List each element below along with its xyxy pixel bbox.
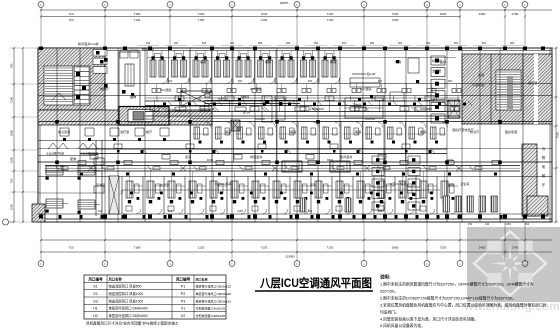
svg-text:D820x200: D820x200	[200, 107, 214, 111]
svg-text:治疗室: 治疗室	[120, 129, 129, 134]
svg-text:方形散流器 D160x125: 方形散流器 D160x125	[196, 306, 226, 311]
svg-text:配餐: 配餐	[70, 156, 76, 161]
svg-text:7180: 7180	[134, 246, 141, 250]
svg-text:7230: 7230	[440, 246, 447, 250]
svg-text:S2: S2	[93, 292, 97, 296]
svg-text:930: 930	[174, 41, 179, 45]
svg-text:930: 930	[286, 41, 291, 45]
svg-text:119000: 119000	[285, 255, 295, 259]
svg-text:方形散流器 D180x180: 方形散流器 D180x180	[196, 313, 226, 318]
svg-text:300: 300	[448, 79, 453, 83]
svg-text:卫: 卫	[120, 190, 123, 194]
svg-text:510: 510	[342, 41, 347, 45]
svg-text:320x150: 320x150	[365, 117, 376, 121]
svg-text:均设阀门。: 均设阀门。	[380, 310, 399, 315]
svg-text:4.风管安装标高以梁下皮为准，风口尺寸详见综合吊顶图。: 4.风管安装标高以梁下皮为准，风口尺寸详见综合吊顶图。	[380, 317, 478, 322]
svg-text:八层ICU空调通风平面图: 八层ICU空调通风平面图	[259, 276, 372, 290]
svg-text:X2: X2	[181, 314, 185, 318]
svg-text:300: 300	[168, 79, 173, 83]
svg-text:病房: 病房	[420, 129, 426, 134]
svg-text:510: 510	[482, 41, 487, 45]
svg-text:140: 140	[378, 209, 383, 213]
svg-text:1.图中未标注的新风管道风管尺寸为320*250，GFR/X: 1.图中未标注的新风管道风管尺寸为320*250，GFR/X横管尺寸为320*2…	[380, 282, 534, 287]
svg-text:走道: 走道	[185, 154, 191, 159]
svg-text:2450: 2450	[479, 246, 486, 250]
svg-text:电梯厅: 电梯厅	[100, 86, 109, 91]
svg-text:新风竖井(x4)井: 新风竖井(x4)井	[78, 41, 99, 46]
svg-text:7140: 7140	[134, 18, 141, 22]
svg-text:7130: 7130	[327, 12, 334, 16]
svg-text:值班: 值班	[448, 182, 454, 187]
svg-text:2.图中未标注的D/O820*150接管尺寸为320*250: 2.图中未标注的D/O820*150接管尺寸为320*250,D/440*160…	[380, 296, 516, 301]
svg-text:320: 320	[230, 41, 235, 45]
svg-text:病房: 病房	[355, 129, 361, 134]
svg-text:1200: 1200	[261, 18, 268, 22]
svg-text:200: 200	[510, 41, 515, 45]
svg-text:7140: 7140	[10, 96, 14, 103]
svg-text:医护走廊: 医护走廊	[505, 129, 517, 134]
svg-text:150: 150	[308, 209, 313, 213]
svg-text:病房: 病房	[330, 59, 336, 64]
svg-text:说明:: 说明:	[380, 274, 391, 281]
svg-text:360: 360	[454, 41, 459, 45]
svg-text:P1: P1	[181, 285, 185, 289]
svg-text:S3: S3	[93, 299, 97, 303]
svg-text:7180: 7180	[198, 18, 205, 22]
svg-text:7230: 7230	[392, 12, 399, 16]
svg-text:X1: X1	[181, 307, 185, 311]
svg-text:污洗间: 污洗间	[96, 182, 105, 187]
svg-text:2790: 2790	[512, 12, 519, 16]
svg-text:360: 360	[314, 41, 319, 45]
svg-text:140: 140	[168, 209, 173, 213]
svg-text:3580: 3580	[10, 129, 14, 136]
svg-text:800X320: 800X320	[218, 97, 229, 101]
svg-text:A区ICU病房: A区ICU病房	[215, 181, 232, 186]
svg-text:284: 284	[258, 41, 263, 45]
svg-text:走廊: 走廊	[478, 72, 484, 77]
svg-text:侧送双层风口 风量1000: 侧送双层风口 风量1000	[109, 291, 144, 296]
svg-text:医梯: 医梯	[130, 94, 136, 99]
svg-text:单层百叶排风口 D825x125: 单层百叶排风口 D825x125	[196, 284, 232, 289]
svg-text:H1: H1	[93, 307, 98, 311]
svg-text:单层百叶排风口 D820x125: 单层百叶排风口 D820x125	[196, 298, 232, 303]
svg-text:D640: D640	[207, 158, 214, 162]
svg-text:1220: 1220	[198, 246, 205, 250]
svg-text:风口名称: 风口名称	[196, 276, 208, 281]
svg-text:呼吸机: 呼吸机	[432, 58, 442, 63]
svg-text:150: 150	[525, 222, 530, 226]
svg-text:病房: 病房	[290, 129, 296, 134]
svg-text:3.安装位置风机盘管处风机盘管应与中心置，风口位置以综合吊顶: 3.安装位置风机盘管处风机盘管应与中心置，风口位置以综合吊顶图为准。接风机盘管外…	[380, 303, 547, 308]
svg-text:2800: 2800	[392, 246, 399, 250]
svg-text:344: 344	[146, 41, 151, 45]
svg-text:库房: 库房	[310, 182, 316, 187]
svg-text:5100: 5100	[10, 156, 14, 163]
svg-text:办公走廊: 办公走廊	[58, 129, 70, 134]
svg-text:820x500: 820x500	[420, 107, 432, 111]
svg-text:7180: 7180	[134, 12, 141, 16]
svg-text:284: 284	[370, 41, 375, 45]
svg-text:单层百叶回风口 D640x400: 单层百叶回风口 D640x400	[109, 306, 148, 311]
svg-text:风机盘管风口尺寸详见"综合吊顶图"并与装修工程配合施工: 风机盘管风口尺寸详见"综合吊顶图"并与装修工程配合施工	[86, 321, 179, 326]
svg-text:7130: 7130	[261, 246, 268, 250]
svg-text:D640: D640	[447, 158, 454, 162]
svg-text:790: 790	[10, 63, 14, 68]
svg-text:320x200: 320x200	[255, 117, 266, 121]
svg-text:930: 930	[426, 41, 431, 45]
svg-text:风口编号: 风口编号	[88, 276, 103, 281]
svg-text:320x250: 320x250	[145, 117, 156, 121]
svg-text:7130: 7130	[327, 246, 334, 250]
svg-text:ICU通道: ICU通道	[250, 86, 262, 91]
svg-text:观片室: 观片室	[528, 80, 537, 85]
svg-text:900: 900	[238, 79, 243, 83]
svg-text:320*150。: 320*150。	[380, 290, 398, 294]
svg-text:S1: S1	[93, 285, 97, 289]
svg-text:140: 140	[485, 222, 490, 226]
svg-text:1150: 1150	[237, 209, 243, 213]
svg-text:7230: 7230	[392, 18, 399, 22]
svg-text:前厅: 前厅	[146, 129, 152, 134]
svg-text:1550X600 加L3M: 1550X600 加L3M	[352, 71, 376, 76]
svg-text:病房: 病房	[395, 59, 401, 64]
svg-text:510: 510	[202, 41, 207, 45]
svg-text:全自动循环泵组: 全自动循环泵组	[46, 152, 65, 156]
svg-text:排风竖井: 排风竖井	[250, 154, 262, 159]
svg-text:7130: 7130	[327, 18, 334, 22]
svg-text:150: 150	[98, 209, 103, 213]
svg-text:治疗室: 治疗室	[432, 68, 441, 73]
svg-text:ICU通道: ICU通道	[160, 87, 172, 92]
svg-text:790: 790	[68, 18, 73, 22]
svg-text:150: 150	[468, 222, 473, 226]
svg-text:92587: 92587	[280, 1, 289, 5]
svg-text:H2: H2	[93, 314, 98, 318]
svg-text:单层百叶回风口 D820x500: 单层百叶回风口 D820x500	[109, 313, 148, 318]
svg-text:2450: 2450	[479, 12, 486, 16]
svg-text:700: 700	[68, 12, 73, 16]
svg-text:5.风机风量以设备表为准。: 5.风机风量以设备表为准。	[380, 323, 425, 328]
svg-text:720: 720	[68, 246, 73, 250]
svg-text:侧送双层风口 风量1500: 侧送双层风口 风量1500	[109, 298, 144, 303]
svg-text:湿化疗室休息厅: 湿化疗室休息厅	[452, 127, 474, 132]
svg-text:风口名称: 风口名称	[109, 276, 123, 281]
svg-text:2600: 2600	[440, 12, 447, 16]
svg-text:侧送双层风口 风量500: 侧送双层风口 风量500	[109, 284, 142, 289]
svg-text:污物间: 污物间	[240, 94, 249, 99]
svg-text:200: 200	[398, 41, 403, 45]
svg-text:单层百叶排风口 D820x200: 单层百叶排风口 D820x200	[196, 291, 232, 296]
svg-text:处置室: 处置室	[160, 182, 169, 187]
svg-text:1220: 1220	[261, 12, 268, 16]
svg-text:新风竖井: 新风竖井	[142, 46, 154, 51]
svg-text:750: 750	[10, 178, 14, 183]
svg-text:300: 300	[308, 79, 313, 83]
svg-text:7500: 7500	[556, 131, 560, 138]
svg-text:1520x500: 1520x500	[310, 107, 324, 111]
svg-text:病房: 病房	[200, 59, 206, 64]
svg-text:病房: 病房	[265, 59, 271, 64]
svg-text:1500: 1500	[10, 203, 14, 210]
svg-text:P3: P3	[181, 299, 185, 303]
svg-text:D820: D820	[327, 158, 334, 162]
svg-text:2790: 2790	[512, 246, 519, 250]
svg-text:新风竖井: 新风竖井	[340, 154, 352, 159]
svg-text:900: 900	[378, 79, 383, 83]
svg-text:P2: P2	[181, 292, 185, 296]
svg-text:1150: 1150	[505, 222, 511, 226]
svg-text:ICU通道: ICU通道	[360, 86, 372, 91]
svg-text:风口编号: 风口编号	[176, 276, 191, 281]
svg-text:病房: 病房	[225, 129, 231, 134]
svg-text:卫生间: 卫生间	[460, 181, 469, 186]
svg-text:B区ICU病房: B区ICU病房	[390, 181, 407, 186]
svg-text:7230: 7230	[198, 12, 205, 16]
svg-text:小观摩室: 小观摩室	[472, 82, 484, 87]
